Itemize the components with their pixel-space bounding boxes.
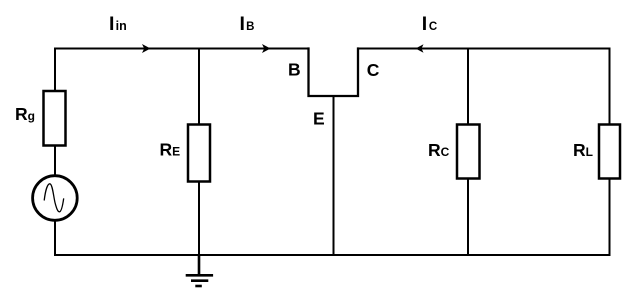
wire RC branch top <box>467 49 469 125</box>
wire source branch top vertical <box>54 49 56 92</box>
resistor Rg <box>44 91 66 146</box>
resistor RL <box>599 125 620 179</box>
wire top rail right segment <box>358 48 610 50</box>
current arrow IC <box>416 44 424 53</box>
ground symbol <box>186 255 213 286</box>
wire RC branch bottom <box>467 179 469 256</box>
wire top rail left segment <box>55 48 309 50</box>
transistor Q1 body (B-E-C staple) <box>309 49 359 97</box>
resistor RE <box>188 125 210 182</box>
AC source V1 sine wave <box>44 184 64 212</box>
wire RE branch bottom <box>198 182 200 256</box>
wire bottom rail <box>55 254 610 256</box>
wire right rail top (RL branch) <box>609 49 611 125</box>
wire Rg to source <box>54 146 56 176</box>
AC source V1 circle <box>33 176 78 221</box>
svg-text:E: E <box>313 109 325 129</box>
svg-text:C: C <box>367 60 380 80</box>
wire emitter vertical <box>333 96 335 255</box>
wire RL branch bottom <box>609 179 611 256</box>
resistor RC <box>457 125 480 179</box>
wire RE branch top <box>198 49 200 125</box>
current arrow Iin <box>142 44 151 53</box>
wire source bottom <box>54 222 56 256</box>
svg-text:B: B <box>288 59 301 79</box>
current arrow IB <box>262 44 271 53</box>
